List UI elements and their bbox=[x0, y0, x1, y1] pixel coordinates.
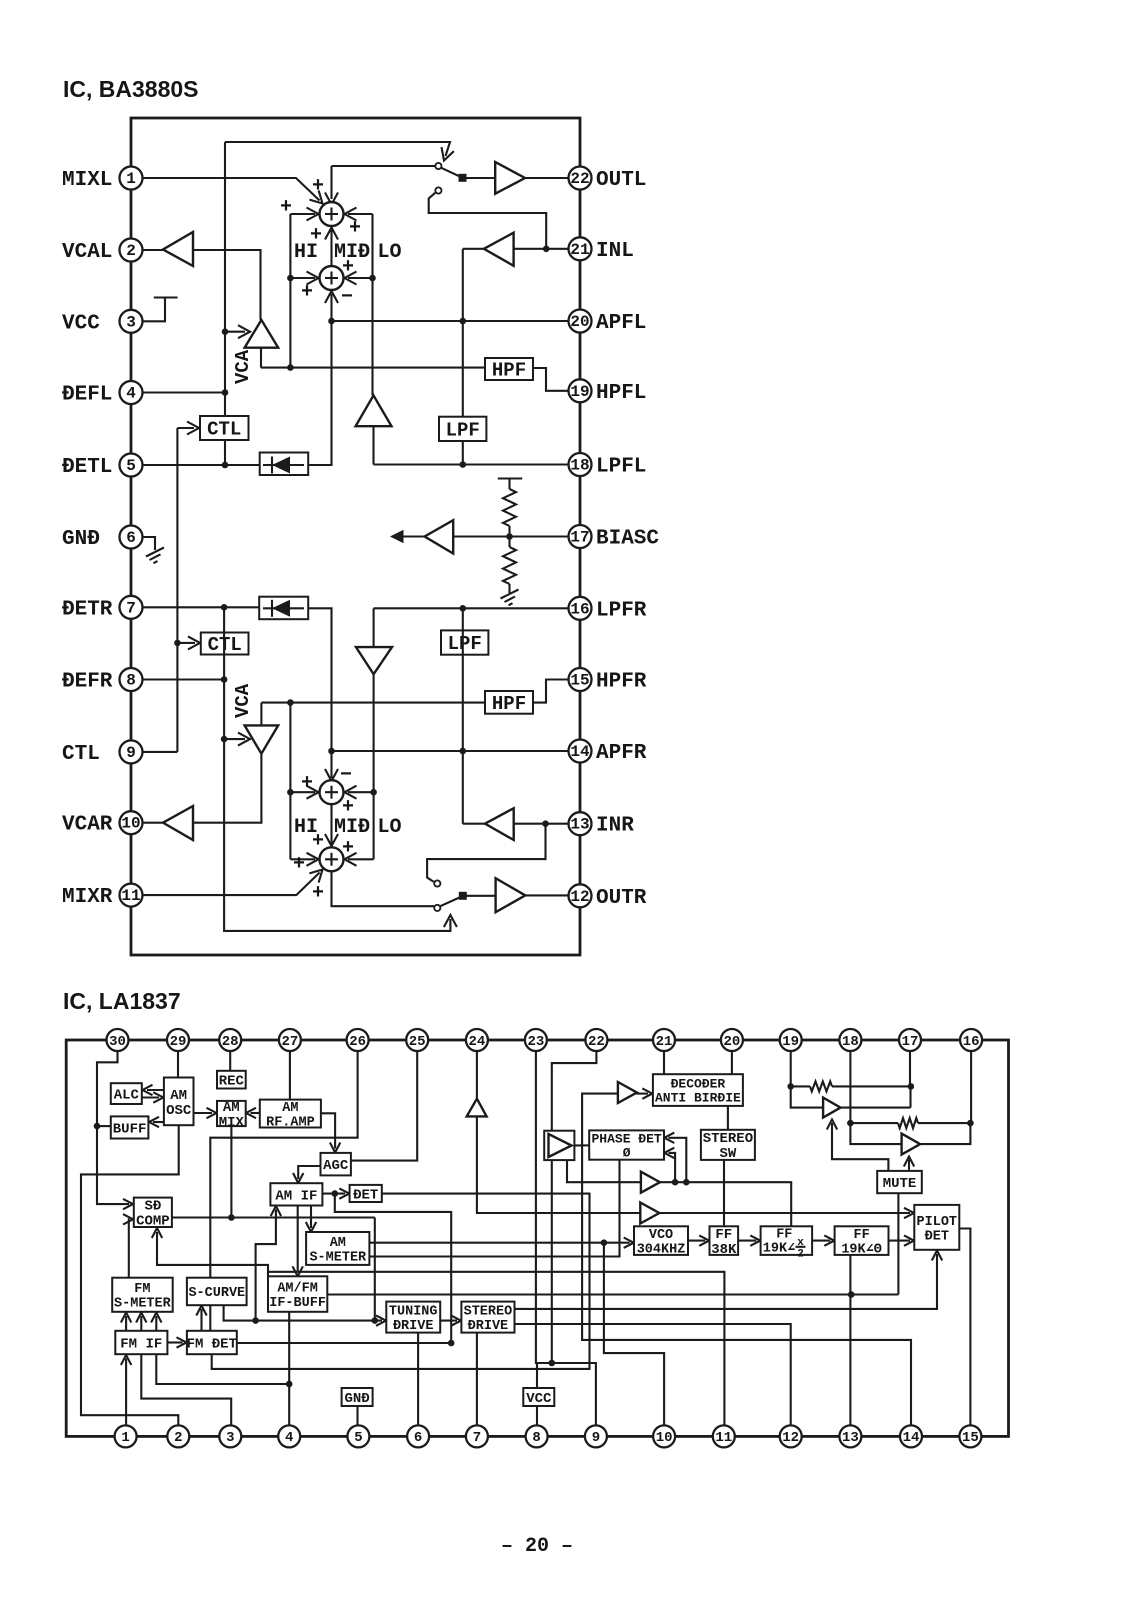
svg-text:IF-BUFF: IF-BUFF bbox=[269, 1296, 326, 1311]
svg-text:ĐRIVE: ĐRIVE bbox=[393, 1319, 434, 1334]
pin 16 top bbox=[960, 1029, 982, 1051]
block PHASE DET bbox=[589, 1130, 664, 1159]
svg-text:1: 1 bbox=[126, 170, 136, 188]
wire pin2 to AM OSC bottom bbox=[81, 1125, 179, 1425]
svg-text:HPF: HPF bbox=[492, 360, 526, 382]
LO rail right channel bbox=[373, 608, 375, 647]
ground symbol pin6 bbox=[143, 537, 156, 550]
svg-text:HPFR: HPFR bbox=[596, 671, 647, 694]
svg-text:PHASE ĐET: PHASE ĐET bbox=[591, 1132, 661, 1147]
block SD COMP bbox=[134, 1198, 172, 1227]
svg-text:+: + bbox=[349, 217, 361, 240]
block AM OSC bbox=[164, 1078, 194, 1126]
wire FM IF to FM S-METER (3 arrows) bbox=[125, 1316, 127, 1331]
block DECODER ANTI BIRDIE bbox=[653, 1074, 743, 1106]
wire expander bottom rail bbox=[551, 1160, 553, 1363]
wire into S2 minus bbox=[330, 294, 332, 321]
wire IF-BUFF to MUTE and pin13 bbox=[327, 1193, 898, 1294]
pin 22 OUTL bbox=[569, 167, 592, 190]
svg-text:VCAL: VCAL bbox=[62, 241, 112, 264]
pin 1 MIXL bbox=[120, 167, 143, 190]
wire FM DET output bbox=[237, 1342, 451, 1344]
wire AM OSC to AM MIX bbox=[194, 1112, 213, 1114]
wire A2 feedback to PHASE DET upper bbox=[669, 1138, 687, 1182]
wire expander out to PHASE DET bbox=[582, 1144, 589, 1146]
svg-text:9: 9 bbox=[126, 744, 136, 762]
svg-text:VCC: VCC bbox=[62, 312, 100, 335]
wire pin11 line bbox=[268, 1272, 724, 1426]
HI rail right channel bbox=[289, 703, 291, 860]
svg-text:AGC: AGC bbox=[323, 1158, 349, 1174]
pin 9 bottom bbox=[585, 1425, 607, 1447]
svg-text:304KHZ: 304KHZ bbox=[637, 1243, 686, 1258]
pin 6 bottom bbox=[407, 1425, 429, 1447]
svg-text:BIASC: BIASC bbox=[596, 528, 659, 551]
wire S3-S4 link bbox=[330, 805, 332, 844]
wire amp A3 to PILOT DET bbox=[659, 1212, 910, 1214]
svg-text:S-CURVE: S-CURVE bbox=[188, 1286, 245, 1301]
wire DET output to FM DET bottom bbox=[212, 1194, 590, 1369]
wire amp A2 to FF x/2 bbox=[659, 1182, 791, 1226]
svg-text:+: + bbox=[312, 830, 324, 853]
wire MUTE to amp A5 bbox=[908, 1160, 910, 1171]
pin 30 top bbox=[107, 1029, 129, 1051]
pin 2 bottom bbox=[167, 1425, 189, 1447]
svg-text:AM/FM: AM/FM bbox=[277, 1282, 318, 1297]
wire STEREO DRIVE to PILOT DET bbox=[515, 1254, 938, 1309]
amp LPF-L boost (up triangle) bbox=[356, 395, 392, 426]
pin 19 HPFL bbox=[569, 379, 592, 402]
wire pin1 to FM IF bbox=[125, 1359, 127, 1426]
svg-text:AM: AM bbox=[330, 1236, 346, 1251]
amp VCAL bbox=[143, 249, 164, 251]
svg-text:ANTI BIRĐIE: ANTI BIRĐIE bbox=[655, 1091, 741, 1106]
pin 28 top bbox=[219, 1029, 241, 1051]
svg-text:MIXL: MIXL bbox=[62, 169, 112, 192]
block FM S-METER bbox=[112, 1278, 173, 1312]
block AM/FM IF-BUFF bbox=[268, 1276, 327, 1312]
svg-text:LPF: LPF bbox=[446, 420, 480, 442]
svg-text:10: 10 bbox=[656, 1430, 673, 1446]
wire FM IF to FM DET bbox=[167, 1341, 182, 1343]
svg-text:ĐET: ĐET bbox=[353, 1187, 378, 1203]
svg-text:11: 11 bbox=[715, 1430, 732, 1446]
wire DECODER to STEREO SW bbox=[727, 1106, 729, 1130]
block HPF (right) bbox=[485, 691, 533, 714]
pin 7 bottom bbox=[466, 1425, 488, 1447]
wire D1 out to APFL node bbox=[308, 321, 331, 465]
svg-text:3: 3 bbox=[226, 1430, 234, 1446]
switch S/W-R contact A bbox=[434, 905, 440, 911]
svg-text:INR: INR bbox=[596, 815, 634, 838]
ground symbol bias bbox=[501, 590, 519, 606]
wire pin21 to INL amp bbox=[514, 248, 569, 250]
wire pin28 to REC bbox=[229, 1051, 231, 1071]
svg-text:13: 13 bbox=[842, 1430, 859, 1446]
svg-text:AM: AM bbox=[170, 1088, 187, 1104]
wire pin18 riser bbox=[850, 1051, 901, 1144]
block VCC bbox=[523, 1388, 554, 1406]
svg-text:19K∠Θ: 19K∠Θ bbox=[841, 1243, 882, 1258]
amp BIASC bbox=[425, 520, 454, 553]
wire pin16 riser bbox=[970, 1051, 972, 1123]
wire LPFL line bbox=[374, 463, 569, 465]
svg-text:LPF: LPF bbox=[448, 633, 482, 655]
node CTL-R tap bbox=[174, 640, 181, 647]
svg-text:ĐET: ĐET bbox=[925, 1229, 949, 1244]
IC body LA1837 bbox=[66, 1040, 1008, 1436]
summer S1 bbox=[320, 202, 344, 226]
block S-CURVE bbox=[187, 1278, 247, 1306]
svg-text:14: 14 bbox=[570, 743, 590, 761]
wire D2 out to APFR node bbox=[308, 608, 331, 751]
wire FM S-METER to SD COMP bbox=[128, 1219, 131, 1277]
svg-text:ĐEFL: ĐEFL bbox=[62, 384, 112, 407]
pin 18 top bbox=[839, 1029, 861, 1051]
svg-text:CTL: CTL bbox=[207, 419, 241, 441]
amp A3 bbox=[640, 1203, 659, 1224]
wire pin13 to INR amp bbox=[514, 823, 569, 825]
svg-text:5: 5 bbox=[126, 457, 136, 475]
block AM RF.AMP bbox=[260, 1100, 321, 1128]
block GND bbox=[342, 1388, 373, 1406]
block TUNING DRIVE bbox=[386, 1302, 440, 1333]
pin 1 bottom bbox=[115, 1425, 137, 1447]
wire STEREO DRIVE to pin12 bbox=[515, 1324, 791, 1425]
pin 3 VCC bbox=[120, 310, 143, 333]
wire S4 bottom to switch contact A bbox=[332, 871, 435, 906]
wire pin23 to VCC rail and pin9 bbox=[536, 1051, 596, 1425]
wire pin4 to FM IF and IF-BUFF bbox=[156, 1354, 289, 1384]
node APFR-MID bbox=[328, 748, 335, 755]
block STEREO DRIVE bbox=[461, 1302, 514, 1333]
wire AM IF to IF-BUFF bbox=[297, 1206, 299, 1273]
wire HPF out to pin19 bbox=[533, 368, 569, 391]
VCC terminal symbol bbox=[143, 298, 178, 322]
wire switch to OUTR amp bbox=[463, 895, 496, 897]
svg-text:20: 20 bbox=[723, 1034, 740, 1050]
wire riser to AM IF bottom bbox=[256, 1210, 276, 1321]
block REC bbox=[217, 1071, 246, 1089]
wire pin4 bbox=[143, 391, 226, 393]
wire PILOT DET to pin15 bbox=[959, 1229, 970, 1426]
svg-text:19: 19 bbox=[782, 1034, 799, 1050]
svg-text:1: 1 bbox=[121, 1430, 129, 1446]
wire pin22 to expander box bbox=[552, 1051, 597, 1131]
svg-text:ĐECOĐER: ĐECOĐER bbox=[671, 1077, 726, 1092]
block AGC bbox=[321, 1153, 351, 1176]
svg-text:VCC: VCC bbox=[526, 1391, 552, 1407]
pin 10 VCAR bbox=[120, 811, 143, 834]
wire switch-R contact B feed bbox=[427, 824, 545, 882]
wire pin24 riser and amp A6 bbox=[476, 1051, 478, 1099]
svg-text:OUTR: OUTR bbox=[596, 887, 647, 910]
resistor R-bias upper bbox=[498, 479, 522, 490]
svg-text:SW: SW bbox=[719, 1146, 736, 1162]
svg-text:6: 6 bbox=[414, 1430, 422, 1446]
wire switch contact B feed bbox=[429, 193, 547, 249]
amp INL buffer bbox=[484, 233, 514, 266]
pin 17 top bbox=[899, 1029, 921, 1051]
svg-text:RF.AMP: RF.AMP bbox=[266, 1116, 315, 1131]
wire pin21 to DECODER bbox=[663, 1051, 665, 1074]
svg-text:+: + bbox=[293, 853, 305, 876]
svg-text:8: 8 bbox=[126, 672, 136, 690]
svg-text:9: 9 bbox=[592, 1430, 600, 1446]
block FF 19K x/2 bbox=[761, 1226, 813, 1255]
block LPF (right) bbox=[441, 630, 488, 654]
wire pin11 to summer S4 bbox=[143, 873, 320, 896]
svg-text:REC: REC bbox=[219, 1074, 245, 1090]
svg-text:4: 4 bbox=[285, 1430, 293, 1446]
resistor R2 bbox=[850, 1122, 898, 1124]
node VCA-L control tap bbox=[222, 328, 229, 335]
amp VCAR bbox=[163, 806, 193, 840]
block ALC bbox=[111, 1083, 142, 1104]
switch S/W-R lever bbox=[440, 896, 463, 906]
LO rail left channel bbox=[371, 214, 373, 395]
wire pin9 bbox=[143, 751, 178, 753]
amp A4 bbox=[823, 1098, 840, 1118]
svg-text:GNĐ: GNĐ bbox=[344, 1391, 369, 1407]
svg-text:5: 5 bbox=[354, 1430, 362, 1446]
summer S2 bbox=[320, 266, 344, 290]
pin 20 APFL bbox=[569, 310, 592, 333]
svg-text:2: 2 bbox=[797, 1249, 804, 1261]
summer S4 bbox=[320, 847, 344, 871]
wire ALC to AM OSC (lower) bbox=[142, 1096, 159, 1098]
svg-text:APFR: APFR bbox=[596, 742, 647, 765]
svg-text:+: + bbox=[342, 256, 354, 279]
wire AM RF.AMP to AGC bbox=[321, 1113, 335, 1148]
block AM S-METER bbox=[306, 1232, 369, 1265]
wire AGC to pin25 bbox=[351, 1051, 417, 1161]
wire FF 38K to FF x/2 bbox=[738, 1240, 756, 1242]
wire S1-S2 link bbox=[330, 229, 332, 266]
wire pin3 to FM IF bbox=[141, 1354, 231, 1425]
svg-text:19: 19 bbox=[570, 383, 589, 401]
wire AM IF to DET bbox=[322, 1193, 345, 1195]
HI rail left channel bbox=[289, 214, 291, 368]
svg-text:2: 2 bbox=[126, 242, 136, 260]
svg-text:LPFR: LPFR bbox=[596, 599, 647, 622]
pin 27 top bbox=[279, 1029, 301, 1051]
svg-text:15: 15 bbox=[570, 672, 589, 690]
svg-text:ĐRIVE: ĐRIVE bbox=[468, 1319, 509, 1334]
switch S/W-L contact A bbox=[435, 163, 441, 169]
svg-text:−: − bbox=[341, 286, 353, 309]
svg-text:19K∠: 19K∠ bbox=[763, 1242, 795, 1257]
block STEREO SW bbox=[701, 1130, 755, 1160]
wire VCC box to pin8 bbox=[536, 1406, 538, 1425]
svg-text:−: − bbox=[340, 764, 352, 787]
wire SD COMP right link bbox=[172, 1216, 375, 1218]
wire VCC box top bbox=[536, 1363, 538, 1388]
svg-text:3: 3 bbox=[126, 313, 136, 331]
amp INR buffer bbox=[485, 808, 514, 840]
svg-text:TUNING: TUNING bbox=[389, 1305, 438, 1320]
svg-text:VCAR: VCAR bbox=[62, 814, 113, 837]
svg-text:+: + bbox=[312, 882, 324, 905]
svg-text:OSC: OSC bbox=[166, 1103, 192, 1119]
amp VCA-R bbox=[245, 725, 279, 753]
svg-text:+: + bbox=[301, 281, 313, 304]
svg-text:12: 12 bbox=[570, 888, 589, 906]
block PILOT DET bbox=[914, 1205, 959, 1250]
wire pin8 bbox=[143, 678, 225, 680]
amp A5 bbox=[902, 1134, 921, 1155]
wire AM S-METER to VCO and pin10 bbox=[369, 1242, 629, 1244]
block FF 19K theta bbox=[835, 1226, 889, 1255]
amp A2 bbox=[641, 1172, 660, 1193]
control bus vertical right channel bbox=[224, 607, 450, 931]
svg-text:S-METER: S-METER bbox=[309, 1250, 367, 1265]
pin 24 top bbox=[466, 1029, 488, 1051]
pin 4 bottom bbox=[278, 1425, 300, 1447]
svg-text:7: 7 bbox=[126, 599, 136, 617]
amp A1 bbox=[618, 1082, 637, 1103]
svg-text:HPFL: HPFL bbox=[596, 382, 646, 405]
svg-text:22: 22 bbox=[570, 170, 589, 188]
summer S3 bbox=[320, 780, 344, 804]
svg-text:FF: FF bbox=[776, 1228, 792, 1243]
svg-text:ĐEFR: ĐEFR bbox=[62, 671, 113, 694]
svg-text:GNĐ: GNĐ bbox=[62, 528, 100, 551]
amp OUTR bbox=[496, 878, 526, 912]
pin 12 bottom bbox=[780, 1425, 802, 1447]
wire expander out to amp A1 bbox=[574, 1094, 618, 1146]
block BUFF bbox=[111, 1116, 149, 1138]
svg-text:IC, BA3880S: IC, BA3880S bbox=[63, 76, 199, 102]
diode D1 bbox=[260, 453, 309, 476]
wire VCA-R out to VCAR amp bbox=[193, 754, 261, 823]
switch S/W-R contact B bbox=[434, 880, 440, 886]
wire MUTE to amp A4 bbox=[832, 1123, 888, 1171]
pin 25 top bbox=[406, 1029, 428, 1051]
block HPF (left) bbox=[485, 358, 533, 380]
control bus vertical left channel bbox=[224, 142, 226, 465]
svg-text:FF: FF bbox=[715, 1227, 732, 1243]
wire pin29 to AM OSC bbox=[177, 1051, 179, 1078]
svg-text:17: 17 bbox=[902, 1034, 919, 1050]
switch S/W-L lever bbox=[441, 168, 463, 178]
wire STEREO SW to FF 38K bbox=[723, 1160, 725, 1226]
svg-text:MIX: MIX bbox=[219, 1115, 245, 1131]
svg-text:MUTE: MUTE bbox=[883, 1176, 917, 1192]
wire GND box to pin5 bbox=[356, 1406, 358, 1425]
svg-text:+: + bbox=[312, 175, 324, 198]
wire into S3 minus bbox=[330, 751, 332, 778]
pin 8 DEFR bbox=[120, 668, 143, 691]
svg-text:STEREO: STEREO bbox=[703, 1131, 753, 1147]
svg-text:+: + bbox=[280, 196, 292, 219]
wire S-CURVE to TUNING DRIVE bbox=[224, 1305, 382, 1320]
svg-text:IC, LA1837: IC, LA1837 bbox=[63, 988, 181, 1014]
wire APFR line bbox=[332, 750, 569, 752]
svg-text:29: 29 bbox=[170, 1034, 187, 1050]
wire amp A5 output bbox=[920, 1123, 970, 1144]
block AM IF bbox=[270, 1183, 322, 1205]
wire pin27 to AM RF.AMP bbox=[289, 1051, 291, 1100]
node APFL-MID bbox=[328, 318, 335, 325]
svg-text:15: 15 bbox=[962, 1430, 979, 1446]
svg-text:10: 10 bbox=[121, 815, 140, 833]
svg-text:21: 21 bbox=[570, 241, 589, 259]
wire AM MIX bottom bbox=[230, 1126, 232, 1217]
svg-text:FM: FM bbox=[134, 1282, 150, 1297]
pin 13 bottom bbox=[839, 1425, 861, 1447]
svg-text:LPFL: LPFL bbox=[596, 456, 646, 479]
wire amp A1 to DECODER bbox=[636, 1093, 648, 1095]
wire composite rail to pin14 line bbox=[582, 1145, 911, 1425]
wire pin19 riser bbox=[791, 1051, 823, 1108]
svg-text:BUFF: BUFF bbox=[113, 1121, 147, 1137]
resistor R-bias lower bbox=[508, 537, 510, 548]
svg-text:FM IF: FM IF bbox=[120, 1336, 162, 1352]
svg-text:21: 21 bbox=[656, 1034, 673, 1050]
svg-text:AM: AM bbox=[223, 1100, 240, 1116]
node VCA-R control tap bbox=[221, 736, 228, 743]
svg-text:+: + bbox=[342, 837, 354, 860]
block CTL (left) bbox=[200, 416, 249, 440]
svg-text:VCA: VCA bbox=[232, 683, 254, 718]
pin 2 VCAL bbox=[120, 239, 143, 262]
diode D2 bbox=[259, 597, 308, 620]
svg-text:17: 17 bbox=[570, 529, 589, 547]
wire INL buffer output riser bbox=[462, 249, 464, 465]
pin 15 bottom bbox=[959, 1425, 981, 1447]
pin 17 BIASC bbox=[569, 525, 592, 548]
svg-text:12: 12 bbox=[782, 1430, 799, 1446]
amp OUTL bbox=[495, 162, 525, 194]
pin 15 HPFR bbox=[569, 668, 592, 691]
wire LPFR line bbox=[374, 607, 569, 609]
pin 10 bottom bbox=[653, 1425, 675, 1447]
pin 5 DETL bbox=[120, 454, 143, 477]
pin 11 bottom bbox=[713, 1425, 735, 1447]
wire pin7 to diode D2 bbox=[143, 606, 260, 608]
pin 16 LPFR bbox=[569, 597, 592, 620]
wire VCA-R feed from HPF line bbox=[261, 703, 485, 726]
svg-text:7: 7 bbox=[473, 1430, 481, 1446]
pin 23 top bbox=[525, 1029, 547, 1051]
svg-text:+: + bbox=[310, 224, 322, 247]
svg-text:20: 20 bbox=[570, 313, 589, 331]
pin 5 bottom bbox=[347, 1425, 369, 1447]
pin 9 CTL bbox=[120, 740, 143, 763]
wire FM DET to S-CURVE bbox=[200, 1309, 202, 1331]
svg-text:PILOT: PILOT bbox=[917, 1215, 958, 1230]
wire expander tap to amp A2 bbox=[567, 1160, 641, 1182]
svg-text:18: 18 bbox=[842, 1034, 859, 1050]
wire TUNING DRIVE to pin6 bbox=[417, 1333, 419, 1426]
wire AM IF det tap bbox=[335, 1194, 451, 1343]
svg-text:SĐ: SĐ bbox=[144, 1199, 161, 1215]
wire pin17 BIASC bbox=[453, 535, 568, 537]
switch S/W-L contact B bbox=[435, 187, 441, 193]
wire AM RF.AMP to AM MIX bbox=[251, 1112, 260, 1114]
svg-text:30: 30 bbox=[109, 1034, 126, 1050]
pin 19 top bbox=[780, 1029, 802, 1051]
svg-text:VCA: VCA bbox=[232, 349, 254, 384]
svg-text:FF: FF bbox=[853, 1228, 869, 1243]
svg-text:APFL: APFL bbox=[596, 312, 646, 335]
svg-text:CTL: CTL bbox=[62, 743, 100, 766]
pin 18 LPFL bbox=[569, 453, 592, 476]
wire amp A4 output bbox=[841, 1107, 911, 1109]
svg-text:6: 6 bbox=[126, 529, 136, 547]
pin 12 OUTR bbox=[569, 884, 592, 907]
